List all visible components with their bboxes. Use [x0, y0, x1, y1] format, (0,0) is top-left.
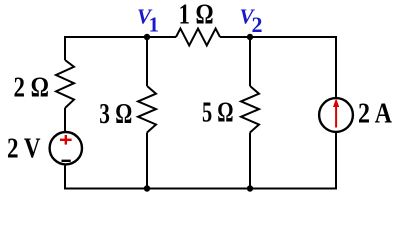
svg-text:2 A: 2 A [358, 98, 393, 129]
svg-text:1 Ω: 1 Ω [179, 0, 214, 31]
wire V2 branch lower [249, 133, 251, 190]
wire top-right segment [220, 36, 336, 38]
plus sign [60, 135, 72, 145]
resistor R1 2ohm zigzag [56, 60, 74, 108]
svg-text:5 Ω: 5 Ω [202, 98, 234, 129]
wire right lower [335, 132, 337, 189]
junction dot bottom right [247, 185, 253, 191]
resistor R4 5ohm zigzag [241, 86, 259, 133]
minus sign [62, 160, 71, 162]
svg-text:2 Ω: 2 Ω [14, 73, 50, 104]
node V1 dot [144, 34, 150, 40]
wire left middle [64, 108, 66, 131]
svg-text:2: 2 [252, 12, 263, 37]
resistor R2 3ohm zigzag [138, 86, 156, 133]
svg-text:2 V: 2 V [7, 134, 41, 165]
junction dot bottom left [144, 185, 150, 191]
wire bottom [65, 188, 336, 190]
wire left upper [64, 36, 66, 60]
node V2 dot [247, 34, 253, 40]
wire V1 branch lower [146, 133, 148, 190]
svg-text:3 Ω: 3 Ω [99, 99, 132, 130]
svg-text:1: 1 [149, 13, 160, 37]
wire right upper [335, 36, 337, 98]
current arrow [333, 98, 339, 127]
resistor R3 1ohm zigzag [176, 29, 220, 46]
current source I circle [319, 98, 353, 132]
wire V2 branch upper [249, 36, 251, 86]
wire top-left segment [65, 36, 176, 38]
voltage source V circle [50, 132, 82, 164]
wire left lower [64, 165, 66, 189]
wire V1 branch upper [146, 36, 148, 86]
